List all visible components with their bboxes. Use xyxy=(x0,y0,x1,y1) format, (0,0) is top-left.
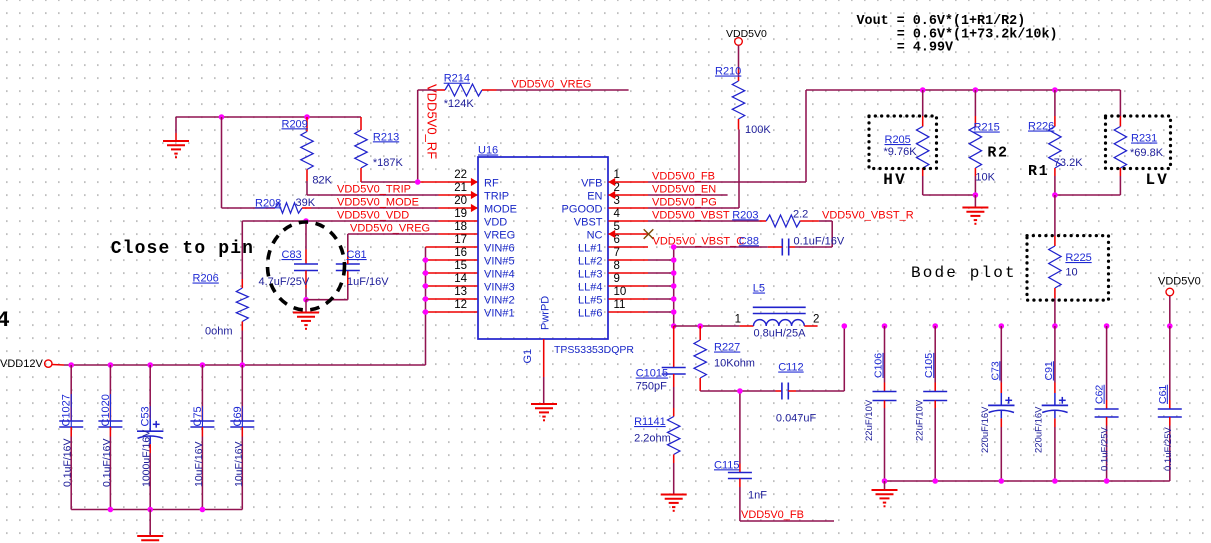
svg-text:VIN#6: VIN#6 xyxy=(484,243,515,255)
pin stub right p6 xyxy=(609,246,649,248)
value C115 1nF xyxy=(748,490,767,502)
label C81 xyxy=(347,249,367,261)
capacitor C91 xyxy=(1042,326,1068,481)
U16 pin numbers xyxy=(454,169,626,311)
VIN bus and pin stubs p17-p12 xyxy=(426,247,478,365)
svg-text:VIN#2: VIN#2 xyxy=(484,295,515,307)
label R227 xyxy=(714,342,740,354)
svg-text:0.1uF/16V: 0.1uF/16V xyxy=(794,235,845,247)
pin stub VDD p19 xyxy=(439,220,478,222)
label C61 xyxy=(1157,385,1169,404)
svg-text:C1020: C1020 xyxy=(100,394,112,426)
pin stub VREG p18 xyxy=(439,233,478,235)
svg-text:*9.76K: *9.76K xyxy=(884,146,918,158)
svg-text:13: 13 xyxy=(454,286,467,298)
ground divider xyxy=(962,195,988,225)
svg-text:10: 10 xyxy=(614,286,627,298)
svg-text:18: 18 xyxy=(454,221,467,233)
svg-text:4: 4 xyxy=(614,208,621,220)
pin G1 xyxy=(543,339,545,404)
svg-text:R227: R227 xyxy=(714,342,740,354)
svg-text:*69.8K: *69.8K xyxy=(1130,147,1164,159)
no-connect X xyxy=(644,229,654,239)
arrow VFB p1 xyxy=(608,178,615,186)
junction C83 bottom xyxy=(303,297,309,303)
svg-text:C115: C115 xyxy=(714,459,739,471)
value C75 10uF/16V xyxy=(193,441,205,487)
label R214 xyxy=(444,73,470,85)
svg-text:RF: RF xyxy=(484,178,499,190)
label PwrPD xyxy=(540,296,552,330)
wire R210 riser xyxy=(738,130,740,209)
wire C112 to out bus xyxy=(796,326,844,391)
svg-text:LL#2: LL#2 xyxy=(578,256,602,268)
svg-text:VIN#1: VIN#1 xyxy=(484,308,515,320)
capacitor C69 xyxy=(230,365,254,510)
value R214 *124K xyxy=(444,98,475,110)
svg-text:19: 19 xyxy=(454,208,467,220)
svg-text:VDD5V0_VBST_R: VDD5V0_VBST_R xyxy=(822,210,914,222)
pin stub RF p22 xyxy=(420,178,478,186)
wire LL to L5 xyxy=(674,323,740,329)
junction R209 top xyxy=(304,114,310,120)
port VDD5V0 right xyxy=(1158,275,1201,296)
svg-text:C73: C73 xyxy=(989,361,1001,380)
port VDD12V xyxy=(0,358,64,370)
svg-text:2.2ohm: 2.2ohm xyxy=(634,432,671,444)
wire VREG net xyxy=(348,233,439,235)
resistor R225 xyxy=(1049,195,1061,326)
svg-text:VDD5V0_VBST_C: VDD5V0_VBST_C xyxy=(653,236,745,248)
capacitor C81 xyxy=(336,234,360,285)
wire C81 bottom link xyxy=(306,285,348,300)
pin stub right p7 xyxy=(609,259,649,261)
value R231 *69.8K xyxy=(1130,147,1164,159)
svg-text:VDD5V0_EN: VDD5V0_EN xyxy=(652,184,716,196)
wire C115 branch xyxy=(739,391,741,464)
svg-text:R210: R210 xyxy=(715,66,741,78)
note LV xyxy=(1146,171,1170,189)
output bottom junctions xyxy=(882,478,1110,484)
svg-text:NC: NC xyxy=(587,230,603,242)
svg-text:0.047uF: 0.047uF xyxy=(776,413,817,425)
svg-text:LV: LV xyxy=(1146,171,1170,189)
capacitor C73 xyxy=(988,326,1014,481)
svg-text:LL#1: LL#1 xyxy=(578,243,602,255)
svg-text:8: 8 xyxy=(614,260,620,272)
resistor R210 xyxy=(732,45,744,129)
resistor R213 xyxy=(355,117,367,182)
L5 pin 2 xyxy=(813,314,819,326)
svg-text:15: 15 xyxy=(454,260,467,272)
svg-text:VDD5V0: VDD5V0 xyxy=(1158,275,1201,287)
label C83 xyxy=(282,249,302,261)
net label VDD5V0_FB bottom xyxy=(741,509,804,521)
pin stub right p9 xyxy=(609,285,649,287)
capacitor C83 xyxy=(294,221,318,300)
wire R231-R226 bottom xyxy=(1055,194,1121,196)
svg-text:1uF/16V: 1uF/16V xyxy=(347,276,389,288)
value R226 73.2K xyxy=(1054,157,1083,169)
wire TRIP net xyxy=(307,194,439,196)
svg-text:VBST: VBST xyxy=(574,217,603,229)
wire VDD5V0_RF vertical xyxy=(417,90,419,182)
resistor R214 xyxy=(418,84,497,96)
wire FB riser xyxy=(805,90,807,182)
svg-text:G1: G1 xyxy=(522,349,534,364)
svg-text:VDD5V0_PG: VDD5V0_PG xyxy=(652,197,717,209)
svg-text:220uF/16V: 220uF/16V xyxy=(980,406,991,453)
ground R1141 xyxy=(661,495,687,512)
svg-text:R203: R203 xyxy=(732,209,758,221)
junction C115 xyxy=(737,388,743,394)
svg-text:C81: C81 xyxy=(347,249,367,261)
wire RF net xyxy=(361,181,420,183)
svg-text:4.7uF/25V: 4.7uF/25V xyxy=(259,276,310,288)
value R209 82K xyxy=(312,175,332,187)
svg-text:R213: R213 xyxy=(373,131,399,143)
wire VREG top net xyxy=(497,89,629,91)
capacitor C106 xyxy=(873,326,897,481)
svg-text:EN: EN xyxy=(587,191,602,203)
svg-text:R1: R1 xyxy=(1028,163,1049,180)
svg-text:R2: R2 xyxy=(987,145,1008,162)
svg-text:U16: U16 xyxy=(478,145,498,157)
svg-text:C112: C112 xyxy=(778,362,803,374)
op-amp U16 box xyxy=(478,157,608,339)
junction RF net xyxy=(415,179,421,185)
label R226 xyxy=(1028,121,1054,133)
net label VDD5V0_MODE xyxy=(337,196,419,208)
svg-text:10uF/16V: 10uF/16V xyxy=(233,441,245,487)
VIN bus junctions xyxy=(423,257,429,315)
label R210 xyxy=(715,66,741,78)
value C106 22uF/10V xyxy=(864,399,875,441)
svg-text:L5: L5 xyxy=(753,283,765,295)
svg-text:*124K: *124K xyxy=(444,98,475,110)
label C53 xyxy=(140,406,152,426)
svg-text:VDD: VDD xyxy=(484,217,507,229)
value R1141 2.2ohm xyxy=(634,432,671,444)
svg-text:C106: C106 xyxy=(873,353,885,378)
note R2 xyxy=(987,145,1008,162)
note Bode plot xyxy=(911,264,1017,282)
resistor R209 xyxy=(301,117,313,181)
svg-text:1000uF/16V: 1000uF/16V xyxy=(141,430,153,487)
capacitor C1027 xyxy=(59,365,83,510)
label C1027 xyxy=(61,394,73,426)
svg-text:C91: C91 xyxy=(1043,361,1055,380)
svg-text:10K: 10K xyxy=(975,172,995,184)
svg-text:PGOOD: PGOOD xyxy=(562,204,603,216)
svg-text:VDD5V0_VBST: VDD5V0_VBST xyxy=(652,210,730,222)
input bottom junctions xyxy=(108,507,206,513)
svg-text:R226: R226 xyxy=(1028,121,1054,133)
capacitor C75 xyxy=(190,365,214,510)
svg-text:22uF/10V: 22uF/10V xyxy=(864,399,875,441)
capacitor C105 xyxy=(923,326,947,481)
resistor R208 xyxy=(265,203,311,213)
label C73 xyxy=(989,361,1001,380)
value R203 2.2 xyxy=(793,208,808,220)
value R213 *187K xyxy=(373,157,404,169)
svg-text:0.1uF/25V: 0.1uF/25V xyxy=(1163,427,1174,471)
svg-text:100K: 100K xyxy=(745,124,771,136)
svg-text:VREG: VREG xyxy=(484,230,515,242)
net label VDD5V0_TRIP xyxy=(337,183,411,195)
note R1 xyxy=(1028,163,1049,180)
ground G1 xyxy=(531,404,557,421)
wire VBST net xyxy=(648,220,760,222)
svg-text:C105: C105 xyxy=(923,353,935,378)
label C106 xyxy=(873,353,885,378)
label R209 xyxy=(282,118,308,130)
junction C83 top xyxy=(303,218,309,224)
label C112 xyxy=(778,362,803,374)
note HV xyxy=(883,171,907,189)
wire VBST_R corner xyxy=(795,221,832,247)
resistor R231 body xyxy=(1114,90,1126,195)
value C1015 750pF xyxy=(636,380,667,392)
svg-text:9: 9 xyxy=(614,273,620,285)
value R225 10 xyxy=(1065,267,1077,279)
wire MODE net xyxy=(311,207,439,209)
svg-text:LL#5: LL#5 xyxy=(578,295,602,307)
wire EN net xyxy=(648,194,728,196)
svg-text:VDD5V0_VREG: VDD5V0_VREG xyxy=(511,79,591,91)
svg-text:VIN#4: VIN#4 xyxy=(484,269,515,281)
output ground xyxy=(872,481,898,507)
svg-text:VDD5V0_RF: VDD5V0_RF xyxy=(424,84,439,159)
resistor R215 body xyxy=(969,90,981,195)
resistor R205 body xyxy=(917,90,929,195)
svg-text:R1141: R1141 xyxy=(634,416,666,428)
svg-text:C88: C88 xyxy=(739,235,759,247)
divider bus junctions xyxy=(920,87,1058,93)
wire R205-R215 bottom xyxy=(923,194,976,196)
capacitor C53 xyxy=(137,365,163,510)
output top bus junctions xyxy=(842,323,1173,329)
label R1141 xyxy=(634,416,666,428)
dotted box R225 xyxy=(1027,236,1109,301)
dotted box HV xyxy=(869,116,937,169)
svg-text:7: 7 xyxy=(614,247,620,259)
label C115 xyxy=(714,459,739,471)
value C1027 0.1uF/16V xyxy=(62,439,74,487)
divider top bus xyxy=(806,89,1120,91)
junction divider gnd xyxy=(973,192,979,198)
net label VDD5V0_VDD xyxy=(337,209,409,221)
svg-text:17: 17 xyxy=(454,234,467,246)
label R203 xyxy=(732,209,758,221)
value R210 100K xyxy=(745,124,771,136)
value C112 0.047uF xyxy=(776,413,817,425)
svg-text:C61: C61 xyxy=(1157,385,1169,404)
value R208 39K xyxy=(296,197,316,209)
svg-text:R209: R209 xyxy=(282,118,308,130)
U16 pin names xyxy=(484,178,603,320)
svg-text:VDD12V: VDD12V xyxy=(0,358,43,370)
formula Vout xyxy=(857,14,1058,56)
net label VDD5V0_RF xyxy=(424,84,439,159)
capacitor C88 xyxy=(674,239,795,256)
wire top-left horizontal xyxy=(176,116,361,118)
svg-text:VDD5V0_VDD: VDD5V0_VDD xyxy=(337,209,409,221)
pin stub right p3 xyxy=(609,207,649,209)
net label VDD5V0_VBST_C xyxy=(653,236,745,248)
svg-text:10Kohm: 10Kohm xyxy=(714,357,755,369)
net label VDD5V0_VBST_R xyxy=(822,210,914,222)
svg-text:C53: C53 xyxy=(140,406,152,426)
resistor R1141 xyxy=(668,408,680,495)
net label VDD5V0_PG xyxy=(652,197,717,209)
value C69 10uF/16V xyxy=(233,441,245,487)
label C1015 xyxy=(636,368,668,380)
pin stub right p1 xyxy=(609,181,649,183)
pin stub NC p5 xyxy=(608,230,648,238)
label R213 xyxy=(373,131,399,143)
svg-text:220uF/16V: 220uF/16V xyxy=(1033,406,1044,453)
wire R206 to bus xyxy=(241,331,243,366)
label R225 xyxy=(1065,252,1091,264)
svg-text:R215: R215 xyxy=(974,122,1000,134)
input bottom bus xyxy=(71,509,242,511)
svg-text:Close to pin: Close to pin xyxy=(111,239,254,259)
label R205 xyxy=(885,134,911,146)
svg-text:LL#4: LL#4 xyxy=(578,282,602,294)
note Close to pin xyxy=(111,239,254,259)
svg-text:R208: R208 xyxy=(255,197,281,209)
svg-text:16: 16 xyxy=(454,247,467,259)
svg-text:PwrPD: PwrPD xyxy=(540,296,552,330)
label C1020 xyxy=(100,394,112,426)
LL bus xyxy=(648,247,674,326)
svg-text:LL#6: LL#6 xyxy=(578,308,602,320)
svg-text:4: 4 xyxy=(0,308,10,333)
pin stub right p8 xyxy=(609,272,649,274)
label R208 xyxy=(255,197,281,209)
net label VDD5V0_FB xyxy=(652,171,715,183)
label C91 xyxy=(1043,361,1055,380)
svg-text:VIN#5: VIN#5 xyxy=(484,256,515,268)
svg-text:MODE: MODE xyxy=(484,204,517,216)
svg-text:TPS53353DQPR: TPS53353DQPR xyxy=(554,344,634,356)
value C91 220uF/16V xyxy=(1033,406,1044,453)
capacitor C1015 xyxy=(662,326,686,408)
wire C83 gnd link xyxy=(293,300,319,330)
capacitor C1020 xyxy=(98,365,122,510)
value C105 22uF/10V xyxy=(915,399,926,441)
inductor L5 xyxy=(740,307,818,326)
value C83 4.7uF/25V xyxy=(259,276,310,288)
svg-text:C1027: C1027 xyxy=(61,394,73,426)
svg-text:0.1uF/16V: 0.1uF/16V xyxy=(101,439,113,487)
dashed ellipse close-to-pin xyxy=(268,222,345,310)
net label VDD5V0_VREG left xyxy=(350,222,430,234)
resistor R206 xyxy=(236,279,248,331)
svg-text:1nF: 1nF xyxy=(748,490,767,502)
LL bus junctions xyxy=(671,244,677,329)
svg-text:R214: R214 xyxy=(444,73,470,85)
svg-text:C1015: C1015 xyxy=(636,368,668,380)
value C62 0.1uF/25V xyxy=(1100,427,1111,471)
arrow EN p2 xyxy=(608,191,615,199)
net label VDD5V0_EN xyxy=(652,184,716,196)
label C75 xyxy=(192,406,204,426)
svg-text:VDD5V0_FB: VDD5V0_FB xyxy=(741,509,804,521)
resistor R203 xyxy=(760,215,819,227)
wire FB net xyxy=(648,181,806,183)
value C1020 0.1uF/16V xyxy=(101,439,113,487)
resistor R227 xyxy=(694,326,706,391)
value C61 0.1uF/25V xyxy=(1163,427,1174,471)
resistor R226 body xyxy=(1049,90,1061,195)
svg-text:750pF: 750pF xyxy=(636,380,667,392)
pin stub right p11 xyxy=(609,311,649,313)
svg-text:0.8uH/25A: 0.8uH/25A xyxy=(754,327,807,339)
svg-text:Bode plot: Bode plot xyxy=(911,264,1017,282)
pin stub right p10 xyxy=(609,298,649,300)
pin stub MODE p20 xyxy=(439,204,478,212)
label C62 xyxy=(1094,385,1106,404)
svg-text:R231: R231 xyxy=(1131,133,1157,145)
svg-text:1: 1 xyxy=(735,314,741,326)
svg-text:21: 21 xyxy=(454,182,467,194)
svg-text:C75: C75 xyxy=(192,406,204,426)
svg-text:10uF/16V: 10uF/16V xyxy=(193,441,205,487)
svg-text:C69: C69 xyxy=(232,406,244,426)
label C69 xyxy=(232,406,244,426)
wire PG net xyxy=(648,207,739,209)
svg-text:R206: R206 xyxy=(193,273,219,285)
svg-text:C62: C62 xyxy=(1094,385,1106,404)
label R206 xyxy=(193,273,219,285)
ground top-left xyxy=(163,117,189,158)
svg-text:HV: HV xyxy=(883,171,907,189)
label U16 xyxy=(478,145,498,157)
value C81 1uF/16V xyxy=(347,276,389,288)
input top bus xyxy=(64,364,426,366)
pin stub right p2 xyxy=(609,194,649,196)
wire R209 to TRIP xyxy=(306,181,308,195)
wire to R208 xyxy=(222,207,266,209)
wire VDD5V0 right riser xyxy=(1169,296,1171,326)
wire VDD net xyxy=(242,220,438,222)
svg-text:82K: 82K xyxy=(312,175,332,187)
wire R206 branch upper xyxy=(241,221,243,279)
svg-text:VDD5V0: VDD5V0 xyxy=(726,28,767,40)
svg-text:R205: R205 xyxy=(885,134,911,146)
value C53 1000uF/16V xyxy=(141,430,153,487)
svg-text:C83: C83 xyxy=(282,249,302,261)
svg-text:TRIP: TRIP xyxy=(484,191,509,203)
label TPS53353DQPR xyxy=(554,344,634,356)
value R205 *9.76K xyxy=(884,146,918,158)
svg-text:0ohm: 0ohm xyxy=(205,326,233,338)
input bus junctions xyxy=(68,362,245,368)
wire R227 bottom row xyxy=(700,390,775,392)
svg-text:VDD5V0_MODE: VDD5V0_MODE xyxy=(337,196,419,208)
net label VDD5V0_VREG top xyxy=(511,79,591,91)
value C88 0.1uF/16V xyxy=(794,235,845,247)
port VDD5V0 top xyxy=(726,28,767,45)
svg-text:73.2K: 73.2K xyxy=(1054,157,1083,169)
wire FB bottom net xyxy=(740,487,834,521)
svg-text:12: 12 xyxy=(454,299,467,311)
capacitor C112 xyxy=(776,383,797,400)
svg-text:VDD5V0_VREG: VDD5V0_VREG xyxy=(350,222,430,234)
value R227 10Kohm xyxy=(714,357,755,369)
